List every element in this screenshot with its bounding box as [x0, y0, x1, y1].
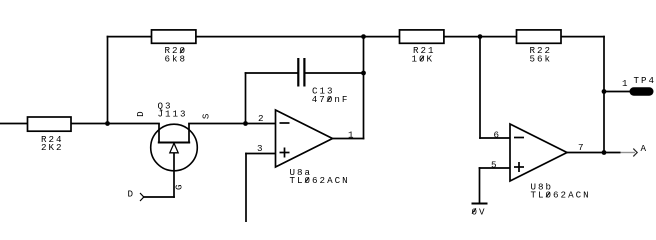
op-amp U8b [510, 124, 567, 181]
Q3 channel bar [158, 142, 190, 144]
Q3 drain lead [158, 124, 160, 143]
wire right vertical feedback [603, 37, 605, 153]
capacitor C13 [298, 58, 304, 87]
junction dot feedback top [361, 34, 366, 39]
testpoint TP4 [630, 87, 654, 95]
junction dot TP4 tap [602, 89, 607, 94]
ground symbol 0V [472, 203, 488, 205]
wire top bus R21 to R22 [444, 36, 517, 38]
svg-text:56k: 56k [530, 53, 553, 64]
wire input to R24 [0, 123, 28, 125]
wire output stub to arrow A (gray part) [621, 152, 636, 154]
svg-text:3: 3 [257, 143, 265, 154]
pin label D rotated [135, 109, 146, 117]
slashed zero of U8a TL062ACN value [305, 177, 309, 182]
junction dot gate node [105, 121, 110, 126]
svg-text:TL062ACN: TL062ACN [531, 190, 591, 201]
svg-text:A: A [641, 143, 649, 154]
port arrow D [140, 193, 144, 201]
resistor R24 [28, 117, 72, 131]
slashed zero of R20 value [180, 48, 184, 53]
svg-text:1: 1 [348, 130, 356, 141]
wire top bus left segment [108, 36, 152, 38]
U8b minus marker [514, 137, 524, 139]
wire Q3 gate horizontal to port D [144, 196, 174, 198]
wire U8b output to node A [567, 152, 604, 154]
svg-text:D: D [135, 109, 146, 117]
wire to TP4 [604, 91, 631, 93]
slashed zero of 470nF value [327, 96, 331, 101]
resistor R22 [517, 30, 562, 43]
svg-text:6k8: 6k8 [165, 54, 188, 65]
svg-text:S: S [200, 112, 211, 120]
wire U8a pin3 vertical to bottom edge [245, 154, 247, 223]
svg-text:2: 2 [258, 113, 266, 124]
junction dot C13 right [361, 71, 366, 76]
transistor Q3 JFET circle [151, 124, 198, 171]
resistor R21 [400, 30, 444, 43]
arrowhead of net A [633, 149, 637, 157]
slashed zero of 0V label [472, 208, 476, 213]
svg-text:2K2: 2K2 [41, 142, 64, 153]
wire U8b pin5 horizontal [480, 167, 511, 169]
pin label S rotated [200, 112, 211, 120]
wire C13 left branch vertical [245, 73, 247, 124]
svg-text:6: 6 [494, 130, 502, 141]
svg-text:G: G [174, 182, 185, 190]
svg-text:7: 7 [578, 142, 586, 153]
junction dot output node [602, 150, 607, 155]
slashed zero of U8b TL062ACN value [546, 192, 550, 197]
U8a plus marker [280, 148, 290, 158]
pin label G rotated [174, 182, 185, 190]
slashed zero of 10K value [420, 56, 424, 61]
svg-text:TL062ACN: TL062ACN [290, 175, 350, 186]
wire top bus R20 to R21 [196, 36, 400, 38]
svg-text:470nF: 470nF [312, 94, 350, 105]
wire left vertical from top bus to gate node [107, 37, 109, 124]
wire output stub to arrow A (black part) [604, 152, 621, 154]
wire U8a pin3 horizontal [246, 153, 276, 155]
wire U8b pin6 horizontal [480, 137, 510, 139]
Q3 source lead [188, 124, 190, 143]
junction dot pin2 node [243, 121, 248, 126]
wire C13 left branch horizontal [246, 72, 299, 74]
wire Q3 gate vertical [173, 153, 175, 197]
wire U8a output [333, 138, 364, 140]
wire U8b pin5 vertical to ground [479, 168, 481, 203]
wire Q3 source to U8a pin2 [189, 123, 276, 125]
wire U8b pin6 vertical from top bus [479, 37, 481, 138]
U8b plus marker [514, 162, 524, 172]
svg-text:1: 1 [622, 78, 630, 89]
wire top bus R22 to right corner [561, 36, 604, 38]
wire feedback vertical [363, 37, 365, 139]
resistor R20 [152, 30, 196, 43]
svg-text:5: 5 [491, 159, 499, 170]
op-amp U8a [276, 110, 333, 167]
U8a minus marker [280, 122, 290, 124]
svg-text:10K: 10K [412, 53, 435, 64]
wire C13 right to feedback node [305, 72, 364, 74]
svg-text:D: D [128, 189, 136, 200]
svg-text:TP4: TP4 [634, 75, 656, 86]
svg-text:J113: J113 [158, 109, 188, 120]
wire R24 to Q3 drain [71, 123, 159, 125]
junction dot pin6 top [478, 34, 483, 39]
Q3 gate arrow [170, 143, 178, 153]
